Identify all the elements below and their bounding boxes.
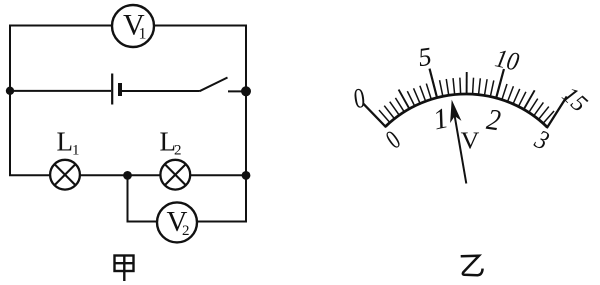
caption 甲 (jia) drawn strokes xyxy=(115,256,134,282)
node: switch contact on right rail xyxy=(241,86,251,96)
wire: top row left of V1 xyxy=(9,25,112,27)
svg-text:2: 2 xyxy=(174,143,182,159)
meter outer scale labels 0 5 10 15 xyxy=(352,42,592,118)
svg-text:0: 0 xyxy=(381,125,406,155)
svg-text:L: L xyxy=(57,127,74,157)
svg-text:10: 10 xyxy=(493,44,522,77)
svg-text:3: 3 xyxy=(530,125,554,157)
meter needle xyxy=(446,99,466,184)
label L1 xyxy=(57,127,80,159)
wire: battery to switch xyxy=(122,90,200,92)
wire: lamp row from left rail to L1 xyxy=(9,174,50,176)
svg-text:1: 1 xyxy=(430,102,451,136)
wire: L2 to right rail xyxy=(190,174,246,176)
svg-text:2: 2 xyxy=(485,104,503,138)
caption 乙 (yi) drawn strokes xyxy=(461,256,483,276)
voltmeter V1 xyxy=(112,5,154,47)
node: junction on left rail xyxy=(6,87,14,95)
wire: left rail xyxy=(9,26,11,176)
battery xyxy=(112,74,120,105)
svg-text:V: V xyxy=(461,128,480,154)
wire: V2 branch to voltmeter xyxy=(127,221,158,223)
wire: right rail xyxy=(245,26,247,222)
svg-text:1: 1 xyxy=(139,26,147,43)
lamp L1 xyxy=(50,160,80,190)
meter inner scale labels 0 1 2 3 xyxy=(381,102,553,156)
wire: V2 branch drop from junction xyxy=(127,175,129,221)
meter unit label V xyxy=(461,128,480,154)
voltmeter V2 xyxy=(157,202,197,242)
svg-text:15: 15 xyxy=(557,82,592,117)
svg-text:1: 1 xyxy=(72,143,80,159)
label L2 xyxy=(160,127,182,159)
lamp L2 xyxy=(160,160,190,190)
switch S (open blade) xyxy=(200,78,247,92)
svg-text:0: 0 xyxy=(352,83,367,114)
meter dial arc xyxy=(385,94,547,127)
node: junction on right rail at lamp row xyxy=(242,171,251,180)
wire: middle row to battery xyxy=(10,90,111,92)
node: junction left of L2 xyxy=(123,171,132,180)
wire: top row right of V1 xyxy=(154,25,247,27)
svg-text:2: 2 xyxy=(182,223,190,239)
wire: V2 to right rail xyxy=(197,221,247,223)
meter tick marks xyxy=(363,69,567,128)
wire: between L1 and L2 xyxy=(80,174,161,176)
svg-text:5: 5 xyxy=(416,42,433,73)
